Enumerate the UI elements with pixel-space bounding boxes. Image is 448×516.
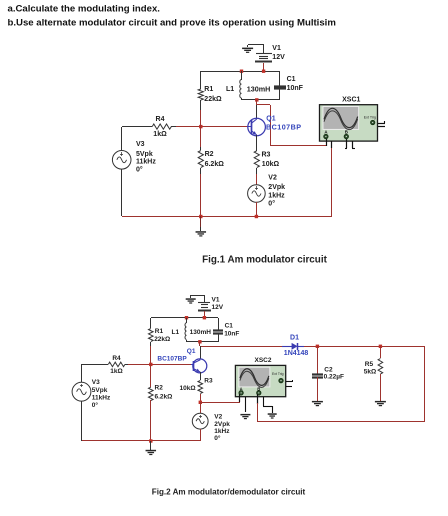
wire V2 to ground rail (circuit 1) xyxy=(256,202,258,216)
junction emitter node to scope c2 xyxy=(199,401,202,404)
label 10kΩ c2 xyxy=(180,385,196,392)
svg-text:V2: V2 xyxy=(214,414,222,421)
label C1 c2 xyxy=(225,322,234,329)
ground GND at XSC2 A- xyxy=(240,414,250,419)
label C1 xyxy=(287,76,296,83)
wire R1 to R2 (circuit 1) xyxy=(200,110,202,147)
label R3 c2 xyxy=(204,377,213,384)
wire V3 to ground rail (circuit 1) xyxy=(121,169,123,216)
svg-text:L1: L1 xyxy=(226,86,234,93)
svg-text:R2: R2 xyxy=(155,385,164,392)
battery V1 (circuit 1) xyxy=(255,54,272,62)
svg-text:2Vpk: 2Vpk xyxy=(214,421,230,428)
transistor Q1 BC107BP (circuit 2) xyxy=(191,359,207,373)
svg-text:V2: V2 xyxy=(268,175,277,182)
svg-text:0.22µF: 0.22µF xyxy=(324,373,344,380)
junction top rail at V1 c2 xyxy=(203,316,206,319)
label 10kΩ xyxy=(262,161,280,168)
capacitor C2 (circuit 2) xyxy=(312,346,323,401)
document heading line b xyxy=(8,18,336,29)
label XSC2 A xyxy=(240,386,243,391)
wire R3 to junction (circuit 2) xyxy=(200,394,202,402)
pin XSC1 B+ xyxy=(345,139,347,149)
svg-text:C1: C1 xyxy=(225,322,234,329)
label XSC2 Ext Trig xyxy=(272,372,284,376)
junction tank bottom at collector xyxy=(255,98,258,101)
wire collector node to scope A+ (circuit 1) xyxy=(257,100,327,146)
svg-text:L1: L1 xyxy=(172,329,180,336)
label L1 c2 xyxy=(172,329,180,336)
AC source V2 (circuit 2) xyxy=(192,413,208,429)
label 10nF xyxy=(287,85,304,92)
wire collector stub Q1 (circuit 2) xyxy=(200,346,202,359)
label BC107BP c2 xyxy=(157,356,187,363)
label V3 xyxy=(136,141,145,148)
svg-text:1kHz: 1kHz xyxy=(268,192,285,199)
pin XSC2 B+ xyxy=(257,394,259,404)
wire collector stub Q1 (circuit 1) xyxy=(256,105,258,119)
label 5Vpk c2 xyxy=(92,387,108,394)
document heading line a xyxy=(8,4,160,15)
resistor R4 (circuit 2) xyxy=(104,362,128,367)
wire R2 to ground rail (circuit 1) xyxy=(200,174,202,216)
label R4 xyxy=(156,116,165,123)
label 22kΩ c2 xyxy=(154,336,170,343)
wire ground rail (circuit 1) xyxy=(122,216,332,218)
label 1kHz xyxy=(268,192,285,199)
svg-text:10nF: 10nF xyxy=(224,330,239,337)
AC source V3 (circuit 2) xyxy=(72,382,91,401)
label 10nF c2 xyxy=(224,330,239,337)
resistor R5 (circuit 2) xyxy=(378,346,383,401)
wire XSC2 B+ to loop xyxy=(257,403,259,422)
label R3 xyxy=(262,151,271,158)
ground GND bottom (circuit 2) xyxy=(146,450,157,455)
resistor R3 (circuit 1) xyxy=(254,151,259,174)
wire junction to scope A+ c2 xyxy=(200,402,240,404)
wire XSC1 A- to ground rail xyxy=(331,148,333,216)
svg-text:R4: R4 xyxy=(112,355,121,362)
svg-text:5Vpk: 5Vpk xyxy=(92,387,108,394)
label R5 xyxy=(365,361,374,368)
svg-text:B: B xyxy=(345,129,348,134)
junction demod wire at C2 xyxy=(316,345,319,348)
svg-text:V1: V1 xyxy=(212,296,220,303)
svg-text:B: B xyxy=(257,386,260,391)
wire top rail node VCC (circuit 1) xyxy=(201,71,280,73)
AC source V3 (circuit 1) xyxy=(112,151,131,170)
ground GND under C2 xyxy=(312,401,323,406)
pin XSC1 A+ xyxy=(326,139,328,146)
wire V3 to R4 (circuit 1) xyxy=(122,127,149,151)
label XSC1 B xyxy=(345,129,348,134)
capacitor C1 (circuit 1) xyxy=(274,71,286,100)
label V2 xyxy=(268,175,277,182)
label 1kHz c2 xyxy=(214,428,230,435)
svg-text:XSC1: XSC1 xyxy=(342,97,360,104)
svg-text:130mH: 130mH xyxy=(190,329,212,336)
svg-text:0°: 0° xyxy=(268,200,275,208)
pin XSC2 A+ xyxy=(239,394,241,402)
transistor Q1 BC107BP (circuit 1) xyxy=(247,118,265,136)
ground GND under R5 xyxy=(375,401,386,406)
label 130mH c2 xyxy=(190,329,212,336)
svg-text:11kHz: 11kHz xyxy=(136,159,156,166)
label 0deg xyxy=(136,166,143,174)
label V1 xyxy=(272,45,281,52)
svg-text:5kΩ: 5kΩ xyxy=(364,369,376,376)
diode D1 1N4148 (circuit 2) xyxy=(282,343,304,350)
label C2 xyxy=(324,366,333,373)
svg-text:D1: D1 xyxy=(290,334,299,341)
svg-text:R2: R2 xyxy=(205,151,214,158)
label R1 xyxy=(204,86,213,93)
label D1 xyxy=(290,334,299,341)
svg-text:1kΩ: 1kΩ xyxy=(110,368,122,375)
wire ground rail (circuit 2) xyxy=(82,440,200,442)
label 5Vpk xyxy=(136,151,153,158)
svg-text:R3: R3 xyxy=(204,377,213,384)
pin XSC1 Ext- xyxy=(378,126,385,128)
pin XSC2 B- xyxy=(263,397,273,413)
wire ground stem (circuit 2) xyxy=(150,441,152,450)
junction top rail at V1 xyxy=(262,70,265,73)
junction top rail at L1 xyxy=(240,70,243,73)
wire R1 to base node (circuit 2) xyxy=(150,346,152,364)
oscilloscope XSC1 screen xyxy=(323,107,359,130)
svg-text:0°: 0° xyxy=(136,166,143,174)
label 2Vpk xyxy=(268,184,285,191)
svg-text:Fig.1 Am modulator circuit: Fig.1 Am modulator circuit xyxy=(202,254,327,265)
svg-text:R1: R1 xyxy=(155,328,164,335)
label R4 c2 xyxy=(112,355,121,362)
label 6.2kΩ c2 xyxy=(155,393,173,400)
svg-text:12V: 12V xyxy=(212,304,224,311)
wire V1 to top rail c2 xyxy=(204,311,206,318)
oscilloscope XSC1 terminals xyxy=(324,120,375,138)
svg-text:V3: V3 xyxy=(136,141,145,148)
svg-text:1kHz: 1kHz xyxy=(214,428,230,435)
svg-text:1N4148: 1N4148 xyxy=(284,350,309,357)
oscilloscope XSC2 label xyxy=(255,357,272,364)
label 0.22µF xyxy=(324,373,344,380)
svg-text:12V: 12V xyxy=(272,54,285,61)
label 12V c2 xyxy=(212,304,224,311)
label 130mH xyxy=(247,84,271,93)
svg-text:Ext Trig: Ext Trig xyxy=(364,116,376,120)
svg-text:R4: R4 xyxy=(156,116,165,123)
inductor L1 (circuit 1) xyxy=(240,71,242,100)
AC source V2 (circuit 1) xyxy=(248,185,266,203)
junction rail at R2/ground c2 xyxy=(149,439,152,442)
resistor R2 (circuit 1) xyxy=(198,147,203,174)
label 1kΩ c2 xyxy=(110,368,122,375)
svg-text:A: A xyxy=(240,386,243,391)
oscilloscope XSC2 screen xyxy=(239,367,270,387)
svg-text:22kΩ: 22kΩ xyxy=(204,96,222,103)
pin XSC2 Ext- xyxy=(286,386,292,388)
svg-text:0°: 0° xyxy=(92,401,99,409)
svg-text:Q1: Q1 xyxy=(187,348,196,355)
label V1 c2 xyxy=(212,296,220,303)
resistor R1 (circuit 1) xyxy=(198,71,203,110)
label XSC1 A xyxy=(324,129,328,134)
resistor R1 (circuit 2) xyxy=(149,318,154,346)
label V2 c2 xyxy=(214,414,222,421)
label Q1 c2 xyxy=(187,348,196,355)
battery V1 (circuit 2) xyxy=(198,303,211,311)
ground GND at XSC2 B- xyxy=(268,413,277,418)
svg-text:V1: V1 xyxy=(272,45,281,52)
label 5kΩ xyxy=(364,369,376,376)
wire collector node to demodulator (circuit 2) xyxy=(200,342,425,422)
inductor L1 (circuit 2) xyxy=(185,318,187,342)
label R2 xyxy=(205,151,214,158)
svg-text:XSC2: XSC2 xyxy=(255,357,272,364)
svg-text:5Vpk: 5Vpk xyxy=(136,151,153,158)
label Q1 xyxy=(266,116,275,123)
wire emitter stub Q1 (circuit 1) xyxy=(256,135,258,151)
svg-text:130mH: 130mH xyxy=(247,84,271,93)
label 2Vpk c2 xyxy=(214,421,230,428)
resistor R2 (circuit 2) xyxy=(149,364,154,441)
label 11kHz c2 xyxy=(92,395,111,402)
wire R4 to Q1 base (circuit 2) xyxy=(128,364,191,366)
wire R4 to Q1 base (circuit 1) xyxy=(176,126,247,128)
svg-text:10kΩ: 10kΩ xyxy=(180,385,196,392)
label XSC1 Ext Trig xyxy=(364,116,376,120)
wire R3 to V2 (circuit 1) xyxy=(256,174,258,185)
label BC107BP xyxy=(266,123,302,132)
label R2 c2 xyxy=(155,385,164,392)
svg-text:10kΩ: 10kΩ xyxy=(262,161,280,168)
svg-text:R5: R5 xyxy=(365,361,374,368)
label 12V xyxy=(272,54,285,61)
wire ground-to-V1 link (circuit 2) xyxy=(191,295,205,302)
label 0deg c2 xyxy=(92,401,99,409)
ground GND bottom (circuit 1) xyxy=(196,231,207,236)
svg-text:2Vpk: 2Vpk xyxy=(268,184,285,191)
label 0deg V2 xyxy=(268,200,275,208)
svg-text:11kHz: 11kHz xyxy=(92,395,111,402)
wire junction to V2 c2 xyxy=(200,402,202,413)
label 1kΩ xyxy=(153,131,167,138)
label 0deg V2 c2 xyxy=(214,434,221,442)
svg-text:0°: 0° xyxy=(214,434,221,442)
pin XSC1 B- xyxy=(352,141,355,149)
ground GND top (circuit 1) xyxy=(242,48,253,53)
label R1 c2 xyxy=(155,328,164,335)
oscilloscope XSC1 body xyxy=(320,105,378,141)
svg-text:Fig.2 Am modulator/demodulator: Fig.2 Am modulator/demodulator circuit xyxy=(152,487,306,496)
wire tank bottom (circuit 1) xyxy=(242,99,280,101)
ground GND top (circuit 2) xyxy=(186,298,196,303)
junction base node c2 xyxy=(149,363,152,366)
label XSC2 B xyxy=(257,386,260,391)
svg-text:a.Calculate the modulating ind: a.Calculate the modulating index. xyxy=(8,4,160,15)
wire V3 to R4 (circuit 2) xyxy=(82,364,105,382)
label 22kΩ xyxy=(204,96,222,103)
svg-text:R3: R3 xyxy=(262,151,271,158)
wire V3 to ground rail (circuit 2) xyxy=(81,401,83,441)
junction base node at R1/R2 xyxy=(199,125,202,128)
svg-text:22kΩ: 22kΩ xyxy=(154,336,170,343)
junction demod wire at R5 xyxy=(379,345,382,348)
svg-text:BC107BP: BC107BP xyxy=(266,123,302,132)
caption Fig.1 xyxy=(202,254,327,265)
oscilloscope XSC1 label xyxy=(342,97,360,104)
svg-text:C1: C1 xyxy=(287,76,296,83)
wire emitter stub Q1 (circuit 2) xyxy=(200,372,202,380)
wire tank bottom (circuit 2) xyxy=(186,341,218,343)
svg-text:Ext Trig: Ext Trig xyxy=(272,372,284,376)
label 11kHz xyxy=(136,159,156,166)
oscilloscope XSC2 body xyxy=(235,365,285,396)
junction rail at V2 xyxy=(255,215,258,218)
junction tank bottom at collector c2 xyxy=(198,340,201,343)
pin XSC1 Ext+ xyxy=(378,121,385,124)
svg-text:V3: V3 xyxy=(92,379,100,386)
svg-text:BC107BP: BC107BP xyxy=(157,356,187,363)
junction rail at R2/ground xyxy=(199,215,202,218)
wire ground stem (circuit 1) xyxy=(200,216,202,231)
svg-text:C2: C2 xyxy=(324,366,333,373)
svg-text:6.2kΩ: 6.2kΩ xyxy=(155,393,173,400)
capacitor C1 (circuit 2) xyxy=(213,318,223,342)
pin XSC2 Ext+ xyxy=(286,380,293,382)
wire top rail node VCC (circuit 2) xyxy=(151,317,218,319)
resistor R3 (circuit 2) xyxy=(198,381,203,394)
label L1 xyxy=(226,86,234,93)
svg-text:b.Use alternate modulator circ: b.Use alternate modulator circuit and pr… xyxy=(8,18,336,29)
svg-text:6.2kΩ: 6.2kΩ xyxy=(205,161,225,168)
wire ground-to-V1 link (circuit 1) xyxy=(248,45,265,55)
wire V1 to top rail xyxy=(263,63,265,71)
label 6.2kΩ xyxy=(205,161,225,168)
resistor R4 (circuit 1) xyxy=(148,124,176,129)
junction top rail at L1 c2 xyxy=(185,316,188,319)
label V3 c2 xyxy=(92,379,100,386)
svg-text:R1: R1 xyxy=(204,86,213,93)
svg-text:1kΩ: 1kΩ xyxy=(153,131,167,138)
wire V2 to ground rail (circuit 2) xyxy=(200,429,202,441)
pin XSC1 A- xyxy=(331,141,333,148)
svg-text:10nF: 10nF xyxy=(287,85,304,92)
label 1N4148 xyxy=(284,350,309,357)
caption Fig.2 xyxy=(152,487,306,496)
oscilloscope XSC2 terminals xyxy=(239,378,283,395)
pin XSC2 A- xyxy=(245,397,247,412)
